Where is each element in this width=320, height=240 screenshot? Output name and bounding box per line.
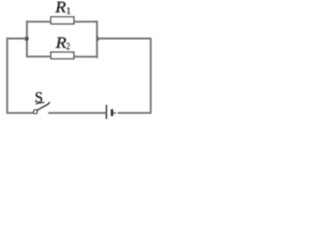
wire parallel-left vertical <box>26 21 28 58</box>
wire bottom middle segment <box>48 112 106 114</box>
resistor R1 <box>51 17 74 24</box>
switch S underline swash <box>36 102 45 104</box>
wire R1 left stub <box>26 21 50 23</box>
resistor R2 <box>51 52 74 59</box>
wire right outer vertical <box>150 38 152 113</box>
switch S pivot circle <box>34 110 38 114</box>
wire bottom left segment <box>7 112 34 114</box>
label R1 <box>55 2 70 14</box>
wire R2 left stub <box>26 56 50 58</box>
battery negative plate (short thick) <box>111 109 113 116</box>
label S <box>36 92 42 102</box>
wire left outer vertical <box>6 38 8 114</box>
node right junction dot <box>97 36 101 41</box>
switch S blade <box>37 102 50 110</box>
wire bottom right segment <box>113 112 116 114</box>
battery positive plate (long) <box>105 105 107 119</box>
label R2 <box>56 37 70 49</box>
wire right mid <box>97 38 151 40</box>
wire left mid <box>7 38 27 40</box>
wire R1 right stub <box>74 21 97 23</box>
wire R2 right stub <box>74 56 97 58</box>
wire bottom right segment continued <box>118 112 152 114</box>
node left junction dot <box>24 37 28 41</box>
wire parallel-right vertical <box>96 21 98 59</box>
